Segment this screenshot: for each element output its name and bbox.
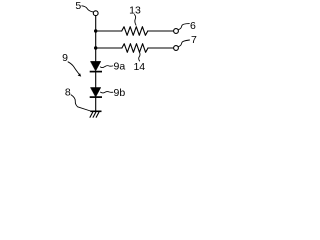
svg-text:14: 14 [133,61,145,73]
resistor 13 [122,27,148,36]
leader for 5 [82,6,94,12]
wire row1 right [148,30,174,32]
svg-text:9b: 9b [114,87,126,99]
diode 9b cathode bar [90,96,102,98]
svg-text:9a: 9a [114,61,126,73]
arrow from 9 to diodes [68,62,79,74]
wire row2 right [148,47,173,49]
wire between diodes [95,72,97,87]
wire row1 left [96,30,122,32]
resistor 14 [122,44,148,53]
wire to ground [95,98,97,111]
junction node row1 [94,29,97,32]
wire row2 left [96,47,122,49]
leader for 9b [101,92,113,93]
leader for 7 [179,40,190,47]
ground hatch 3 [96,112,99,117]
arrowhead of 9 [78,73,82,77]
terminal 7 [174,46,179,51]
ground hatch 2 [93,112,96,117]
svg-text:6: 6 [190,20,196,32]
wire vertical main [95,16,97,62]
diode 9a cathode bar [90,71,102,73]
leader for 13 [135,15,137,26]
leader for 14 [139,53,140,61]
junction node row2 [94,46,97,49]
ground bar [90,110,101,112]
svg-text:9: 9 [62,52,68,64]
svg-text:7: 7 [191,34,197,46]
terminal 5 [93,11,98,16]
leader for 8 [71,95,91,111]
terminal 6 [174,29,179,34]
leader for 6 [179,24,190,30]
leader for 9a [100,66,113,68]
diode 9b [91,88,101,97]
svg-text:5: 5 [75,0,81,12]
svg-text:8: 8 [65,86,71,98]
ground hatch 1 [90,112,93,117]
diode 9a [91,61,101,71]
